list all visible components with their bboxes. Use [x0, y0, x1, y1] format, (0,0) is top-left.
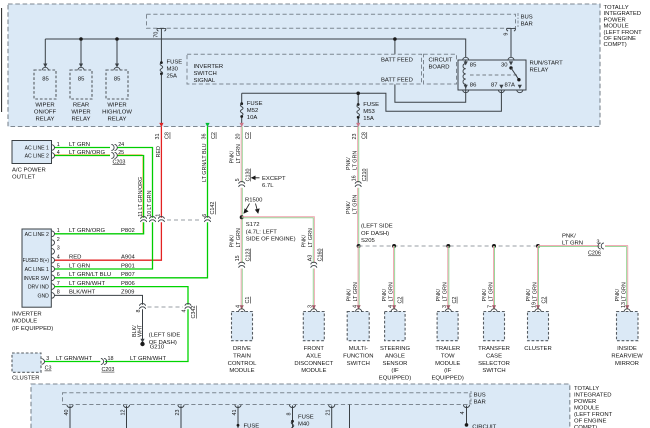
label box: CIRCUIT BOARD [424, 54, 457, 84]
svg-text:C342: C342 [191, 306, 197, 319]
bottom bus bar pin 4 to circuit board [463, 405, 469, 408]
svg-text:AC LINE 1: AC LINE 1 [25, 145, 49, 151]
svg-text:RELAY: RELAY [36, 117, 55, 123]
svg-text:3: 3 [57, 246, 60, 252]
svg-text:36: 36 [201, 134, 207, 140]
svg-text:M53: M53 [363, 109, 375, 115]
svg-text:PNK/: PNK/ [346, 157, 352, 170]
svg-text:LT GRN: LT GRN [69, 263, 90, 269]
svg-text:MIRROR: MIRROR [615, 361, 639, 367]
svg-text:POWER: POWER [604, 17, 626, 23]
svg-text:4: 4 [460, 412, 466, 415]
svg-text:87A: 87A [505, 83, 516, 89]
svg-text:RELAY: RELAY [72, 117, 91, 123]
svg-text:6.7L: 6.7L [262, 183, 274, 189]
svg-text:BATT FEED: BATT FEED [381, 58, 413, 64]
box: multi-function switch [347, 312, 369, 341]
svg-text:STEERING: STEERING [380, 346, 411, 352]
wire: PNK/LT GRN from C2-20 through C130-5 to splice S172 [241, 127, 242, 310]
module box: Totally Integrated Power Module (bottom) [31, 384, 570, 428]
svg-text:WIPER: WIPER [71, 109, 90, 115]
svg-text:LT GRN/ORG: LT GRN/ORG [69, 228, 106, 234]
svg-text:SELECTOR: SELECTOR [478, 361, 510, 367]
bottom bus bar pin 41 with fuse [235, 405, 241, 408]
svg-text:PNK/: PNK/ [482, 288, 488, 301]
svg-text:FUNCTION: FUNCTION [343, 353, 373, 359]
connector C206 [598, 243, 604, 249]
svg-text:23: 23 [352, 134, 358, 140]
svg-text:P801: P801 [121, 263, 135, 269]
svg-text:(IF: (IF [444, 368, 452, 374]
svg-text:DRIVE: DRIVE [233, 346, 251, 352]
label: TOTALLY INTEGRATED POWER MODULE (bottom right) [574, 386, 613, 428]
junction: trailer tow module tap [446, 244, 450, 248]
svg-text:3: 3 [597, 240, 600, 246]
svg-text:SWITCH: SWITCH [482, 368, 505, 374]
svg-text:85: 85 [78, 76, 85, 82]
svg-text:BATT FEED: BATT FEED [381, 78, 413, 84]
rear wiper relay box [70, 70, 92, 99]
svg-text:BOARD: BOARD [429, 64, 450, 70]
svg-text:PNK/: PNK/ [436, 288, 442, 301]
svg-text:AXLE: AXLE [306, 353, 321, 359]
svg-text:25A: 25A [167, 74, 178, 80]
svg-text:C8: C8 [362, 132, 368, 139]
svg-text:FUSE: FUSE [247, 101, 263, 107]
svg-text:10: 10 [147, 211, 153, 217]
wire: bus bar pin 9 down to run/start relay pin 30 [510, 29, 512, 58]
svg-text:S172: S172 [246, 222, 260, 228]
svg-text:30: 30 [501, 62, 508, 68]
svg-text:PNK/: PNK/ [562, 234, 576, 240]
svg-text:20: 20 [236, 134, 242, 140]
wire: PNK/LT GRN drop to trailer tow module [448, 246, 449, 310]
svg-text:COMPT): COMPT) [604, 42, 627, 48]
wire: main feed bus to wiper relays and run/start relay 85 [45, 39, 465, 57]
svg-text:(LEFT FRONT: (LEFT FRONT [604, 30, 643, 36]
svg-text:SENSOR: SENSOR [383, 361, 408, 367]
box: steering angle sensor [385, 312, 406, 341]
svg-text:C123: C123 [245, 249, 251, 262]
connector C210 [355, 182, 361, 187]
svg-text:SIGNAL: SIGNAL [194, 78, 216, 84]
svg-text:LT GRN: LT GRN [353, 195, 359, 214]
svg-text:C210: C210 [362, 169, 368, 182]
svg-text:ANGLE: ANGLE [385, 353, 405, 359]
svg-text:WHT: WHT [137, 324, 143, 337]
svg-text:40: 40 [64, 410, 70, 416]
box: drive train control module [232, 312, 253, 341]
svg-text:C2: C2 [245, 132, 251, 139]
svg-text:SWITCH: SWITCH [194, 71, 217, 77]
wire: PNK/LT GRN drop to transfer case selector switch [493, 246, 494, 310]
svg-text:LT GRN: LT GRN [69, 142, 90, 148]
svg-text:PNK/: PNK/ [302, 234, 308, 247]
wiper on/off relay box [34, 70, 56, 99]
wire: LT GRN from C203-24 through C142-10 to inverter module pin 5 [54, 148, 152, 270]
junction: batt feed tap [393, 37, 397, 41]
svg-text:LT GRN: LT GRN [388, 282, 394, 301]
wiper high/low relay box [106, 70, 128, 99]
svg-text:LT GRN: LT GRN [236, 144, 242, 163]
svg-text:(LEFT FRONT: (LEFT FRONT [574, 412, 613, 418]
svg-text:M30: M30 [167, 67, 179, 73]
svg-text:4: 4 [57, 150, 60, 156]
svg-text:M40: M40 [298, 422, 310, 428]
svg-text:85: 85 [42, 76, 49, 82]
svg-text:31: 31 [155, 134, 161, 140]
svg-text:8: 8 [136, 310, 142, 313]
svg-text:TOTALLY: TOTALLY [574, 386, 599, 392]
svg-text:A/C POWER: A/C POWER [12, 168, 46, 174]
wire: A/C outlet pin 1 to C203-24 [54, 147, 110, 149]
svg-text:5: 5 [57, 263, 60, 269]
svg-text:GND: GND [37, 293, 49, 299]
svg-text:BAR: BAR [521, 22, 533, 28]
connector C203 (cluster) [101, 359, 107, 365]
svg-text:SWITCH: SWITCH [347, 361, 370, 367]
svg-text:OF ENGINE: OF ENGINE [604, 36, 636, 42]
wire: LT GRN/WHT from inverter pin 7 through C342-4 down to cluster line [44, 287, 188, 362]
svg-text:RELAY: RELAY [108, 117, 127, 123]
bottom bus bar pin 40 [67, 405, 73, 408]
box: cluster (bottom row) [528, 312, 549, 341]
svg-text:CLUSTER: CLUSTER [524, 346, 552, 352]
svg-text:C203: C203 [113, 159, 126, 165]
relay coil between 85 and 86 [463, 60, 466, 89]
svg-text:FUSE: FUSE [244, 424, 260, 428]
bus bar (top) [147, 14, 516, 28]
wire: PNK/LT GRN drop to cluster [537, 246, 538, 310]
svg-text:TRAIN: TRAIN [233, 353, 251, 359]
svg-text:6: 6 [202, 214, 208, 217]
svg-text:C2: C2 [398, 297, 404, 304]
svg-text:A904: A904 [121, 255, 135, 261]
svg-text:70: 70 [154, 32, 160, 38]
svg-text:C206: C206 [588, 251, 601, 257]
svg-text:POWER: POWER [574, 399, 596, 405]
svg-text:6: 6 [57, 272, 60, 278]
svg-text:(IF EQUIPPED): (IF EQUIPPED) [12, 326, 53, 332]
svg-text:PNK/: PNK/ [230, 150, 236, 163]
wire: PNK/LT GRN from C8-23 through C210 to splice S205 [358, 127, 359, 244]
svg-text:RED: RED [156, 146, 162, 157]
page border line (left edge) [1, 8, 3, 112]
svg-text:PNK/: PNK/ [230, 234, 236, 247]
wire: fuse M53 drop to connector C8 pin 23 [357, 93, 359, 123]
svg-text:OUTLET: OUTLET [12, 175, 36, 181]
svg-text:MODULE: MODULE [574, 406, 599, 412]
svg-text:LT GRN: LT GRN [532, 282, 538, 301]
svg-text:85: 85 [470, 62, 477, 68]
svg-text:18: 18 [108, 356, 114, 362]
svg-text:P807: P807 [121, 272, 135, 278]
svg-text:SIDE OF ENGINE): SIDE OF ENGINE) [246, 237, 296, 243]
label: BUS BAR (bottom) [470, 391, 472, 397]
svg-text:PNK/: PNK/ [526, 288, 532, 301]
svg-text:LT GRN/ORG: LT GRN/ORG [138, 177, 144, 210]
wire: fuse M52 drop to connector C2 pin 20 [241, 93, 243, 123]
svg-text:INTEGRATED: INTEGRATED [574, 393, 612, 399]
wire: relay pin 87 to fuses M52/M53 feed [242, 90, 502, 111]
wire: batt feed out of circuit board to relay pin 86 [395, 84, 466, 102]
svg-text:C130: C130 [245, 169, 251, 182]
label: BUS BAR (top) [517, 13, 519, 19]
svg-text:2: 2 [57, 237, 60, 243]
box: cluster (bottom left) [12, 353, 41, 372]
svg-text:G210: G210 [150, 345, 165, 351]
svg-text:21: 21 [326, 410, 332, 416]
svg-text:BLK/WHT: BLK/WHT [69, 290, 96, 296]
wire: PNK/LT GRN drop to steering angle sensor [394, 246, 395, 310]
box: inverter module [22, 229, 51, 307]
svg-text:LT GRN: LT GRN [353, 282, 359, 301]
wire: S205 dashed bus to module taps [359, 245, 538, 247]
label box: INVERTER SWITCH SIGNAL [187, 54, 422, 84]
svg-text:PNK/: PNK/ [382, 288, 388, 301]
svg-text:INTEGRATED: INTEGRATED [604, 11, 642, 17]
svg-text:(4.7L: LEFT: (4.7L: LEFT [246, 229, 278, 235]
junction: transfer case switch tap [492, 244, 496, 248]
svg-text:TRAILER: TRAILER [435, 346, 460, 352]
svg-text:WIPER: WIPER [107, 102, 126, 108]
svg-text:S205: S205 [361, 238, 375, 244]
svg-text:CLUSTER: CLUSTER [12, 375, 40, 381]
junction: cluster tap [536, 244, 540, 248]
wire: drop to rear wiper relay [80, 39, 82, 67]
bottom bus bar plain wire [349, 405, 351, 428]
svg-text:CIRCUIT: CIRCUIT [472, 424, 496, 428]
svg-text:1: 1 [57, 228, 60, 234]
svg-text:C8: C8 [165, 132, 171, 139]
svg-text:12: 12 [121, 410, 127, 416]
pin 20 / C2 exit arrow (pnk wire) [240, 123, 244, 127]
connector pin 70 at bus bar [157, 28, 166, 31]
connector C342 [148, 306, 184, 308]
svg-text:1: 1 [57, 142, 60, 148]
box: A/C POWER OUTLET [12, 141, 52, 164]
svg-text:DISCONNECT: DISCONNECT [294, 361, 333, 367]
box: transfer case selector switch [484, 312, 505, 341]
junction: rear wiper relay tap [79, 37, 83, 41]
svg-text:(LEFT SIDE: (LEFT SIDE [149, 333, 181, 339]
svg-text:C1: C1 [245, 297, 251, 304]
relay internal dashed divider [470, 74, 517, 76]
svg-text:INVERTER: INVERTER [12, 312, 42, 318]
svg-text:EQUIPPED): EQUIPPED) [431, 376, 463, 382]
connector C142 inline [167, 219, 202, 221]
svg-text:OF DASH): OF DASH) [361, 231, 389, 237]
svg-text:INVERTER: INVERTER [194, 64, 224, 70]
svg-text:(IF: (IF [391, 368, 399, 374]
wire: drop to wiper high/low relay [116, 39, 118, 67]
svg-text:C2: C2 [211, 132, 217, 139]
svg-text:LT GRN: LT GRN [488, 282, 494, 301]
svg-text:LT GRN: LT GRN [562, 241, 583, 247]
svg-text:REAR: REAR [73, 102, 89, 108]
bottom bus bar pin 21 [329, 405, 335, 408]
wire: batt feed from junction into circuit board [394, 39, 396, 54]
svg-text:PNK/: PNK/ [346, 201, 352, 214]
svg-text:DRV IND: DRV IND [28, 285, 49, 291]
wire: PNK/LT GRN from cluster tap through C206 to inside rearview mirror [538, 245, 628, 309]
fuse M52 10A [240, 102, 243, 105]
box: front axle disconnect module [303, 312, 324, 341]
wire: PNK/LT GRN branch from S172 to C160 and front axle module [242, 217, 315, 310]
svg-text:AC LINE 2: AC LINE 2 [25, 232, 49, 238]
svg-text:LT GRN: LT GRN [147, 190, 153, 209]
wire: LT GRN/ORG from C203-25 through C142-11 to inverter module pin 1 [54, 156, 143, 234]
svg-text:16: 16 [352, 175, 358, 181]
svg-text:INVER SW: INVER SW [23, 276, 49, 282]
svg-text:P802: P802 [121, 228, 135, 234]
junction: wiper high/low relay tap [115, 37, 119, 41]
svg-text:FUSE: FUSE [363, 102, 379, 108]
svg-text:R1500: R1500 [245, 198, 263, 204]
svg-text:TRANSFER: TRANSFER [478, 346, 510, 352]
svg-text:86: 86 [470, 83, 477, 89]
wire: BLK/WHT from inverter pin 8 through C342-8 to ground G210 [54, 295, 142, 339]
wire: A/C outlet pin 4 to C203-25 [54, 155, 110, 157]
svg-text:MODULE: MODULE [301, 368, 326, 374]
svg-text:MODULE: MODULE [435, 361, 460, 367]
pin 36 / C2 exit arrow (green wire) [205, 123, 209, 127]
svg-text:C2: C2 [452, 297, 458, 304]
pin 31 / C8 exit arrow (red wire) [159, 123, 163, 127]
fuse M30 25A [160, 61, 163, 64]
svg-text:11: 11 [138, 211, 144, 217]
svg-text:CONTROL: CONTROL [228, 361, 258, 367]
wire: bus bar pin 70 down through fuse M30 to connector C8 pin 31 [160, 29, 162, 123]
svg-text:41: 41 [232, 410, 238, 416]
svg-text:REARVIEW: REARVIEW [611, 353, 643, 359]
svg-text:RUN/START: RUN/START [530, 61, 564, 67]
svg-text:FUSE: FUSE [167, 60, 183, 66]
wire: drop to wiper on/off relay [44, 39, 46, 67]
svg-text:AC LINE 1: AC LINE 1 [25, 267, 49, 273]
wire: PNK/LT GRN drop to multi-function switch [358, 246, 359, 310]
svg-text:A3: A3 [307, 255, 313, 262]
svg-text:4: 4 [57, 255, 60, 261]
svg-text:8: 8 [287, 413, 293, 416]
svg-text:LT GRN/WHT: LT GRN/WHT [130, 356, 167, 362]
connector C130 [239, 182, 245, 187]
box: trailer tow module [437, 312, 458, 341]
bus bar (bottom) [63, 393, 470, 405]
svg-text:PNK/: PNK/ [346, 288, 352, 301]
svg-text:15: 15 [235, 255, 241, 261]
svg-text:10A: 10A [247, 115, 258, 121]
svg-text:1: 1 [156, 214, 162, 217]
svg-text:C2: C2 [542, 297, 548, 304]
connector C203 (A/C power outlet) [111, 145, 117, 151]
svg-text:OF ENGINE: OF ENGINE [574, 419, 606, 425]
svg-text:MODULE: MODULE [604, 24, 629, 30]
svg-text:C142: C142 [210, 202, 216, 215]
svg-text:LT GRN/LT BLU: LT GRN/LT BLU [69, 272, 111, 278]
svg-text:EQUIPPED): EQUIPPED) [379, 376, 411, 382]
svg-text:LT GRN: LT GRN [353, 151, 359, 170]
svg-text:8: 8 [57, 290, 60, 296]
connector pin 9 at bus bar [507, 28, 516, 31]
svg-text:LT GRN: LT GRN [443, 282, 449, 301]
svg-text:LT GRN: LT GRN [622, 282, 628, 301]
svg-text:23: 23 [175, 410, 181, 416]
relay switch arm pin 30 to 87A [509, 66, 512, 69]
svg-text:LT GRN/LT BLU: LT GRN/LT BLU [202, 143, 208, 182]
svg-text:PNK/: PNK/ [615, 288, 621, 301]
wire: LT GRN/LT BLU from C2-36 through C142-6 to inverter module pin 6 [54, 127, 207, 278]
fuse M53 15A [357, 103, 360, 106]
svg-text:BAR: BAR [474, 400, 486, 406]
svg-text:24: 24 [118, 142, 124, 148]
svg-text:LT GRN/WHT: LT GRN/WHT [56, 356, 93, 362]
svg-text:(LEFT SIDE: (LEFT SIDE [361, 224, 393, 230]
svg-text:25: 25 [118, 150, 124, 156]
splice S205 [357, 244, 361, 248]
relay U1: run/start relay [458, 60, 526, 90]
svg-text:TOW: TOW [441, 353, 455, 359]
svg-text:9: 9 [503, 33, 509, 36]
svg-text:Z909: Z909 [121, 290, 134, 296]
svg-text:LT GRN: LT GRN [236, 228, 242, 247]
label: TOTALLY INTEGRATED POWER MODULE (top right) [604, 5, 643, 48]
svg-text:HIGH/LOW: HIGH/LOW [102, 109, 132, 115]
module box: Totally Integrated Power Module (top) [8, 4, 600, 127]
svg-text:LT GRN/ORG: LT GRN/ORG [69, 150, 106, 156]
svg-text:19: 19 [532, 302, 538, 308]
ground G210 [140, 339, 144, 343]
svg-text:ON/OFF: ON/OFF [34, 109, 57, 115]
svg-text:FUSED B(+): FUSED B(+) [23, 258, 50, 264]
junction: steering angle sensor tap [392, 244, 396, 248]
svg-text:MODULE: MODULE [229, 368, 254, 374]
svg-text:MULTI-: MULTI- [349, 346, 368, 352]
svg-text:85: 85 [114, 76, 121, 82]
svg-text:EXCEPT: EXCEPT [262, 176, 286, 182]
box: inside rearview mirror [617, 312, 639, 341]
svg-text:C160: C160 [317, 249, 323, 262]
svg-text:FUSE: FUSE [298, 414, 314, 420]
svg-text:MODULE: MODULE [12, 319, 37, 325]
svg-text:5: 5 [235, 178, 241, 181]
svg-text:FRONT: FRONT [304, 346, 325, 352]
svg-text:WIPER: WIPER [35, 102, 54, 108]
svg-text:TOTALLY: TOTALLY [604, 5, 629, 11]
svg-text:RED: RED [69, 255, 81, 261]
svg-text:15A: 15A [363, 116, 374, 122]
svg-text:M52: M52 [247, 108, 258, 114]
svg-text:LT GRN: LT GRN [308, 228, 314, 247]
pin 23 / C8 exit arrow (pnk wire) [356, 123, 360, 127]
svg-text:3: 3 [46, 356, 49, 362]
junction: fuse M53 tap [356, 92, 360, 96]
label: EXCEPT 6.7L with arrow [252, 176, 260, 179]
connector C123 [239, 262, 245, 267]
svg-text:AC LINE 2: AC LINE 2 [25, 153, 49, 159]
svg-text:4: 4 [182, 310, 188, 313]
module arrows into cups [240, 305, 630, 309]
svg-text:CASE: CASE [486, 353, 502, 359]
bottom bus bar pin 8 with fuse M40 [289, 405, 295, 408]
bottom bus bar pin 12 [123, 405, 129, 408]
svg-text:C3: C3 [45, 366, 52, 372]
svg-text:RELAY: RELAY [530, 68, 549, 74]
svg-text:INSIDE: INSIDE [617, 346, 637, 352]
wire: RED from C8-31 through C142-1 to inverter module pin 4 [54, 127, 161, 260]
svg-text:87: 87 [491, 83, 498, 89]
svg-text:C203: C203 [102, 367, 115, 373]
